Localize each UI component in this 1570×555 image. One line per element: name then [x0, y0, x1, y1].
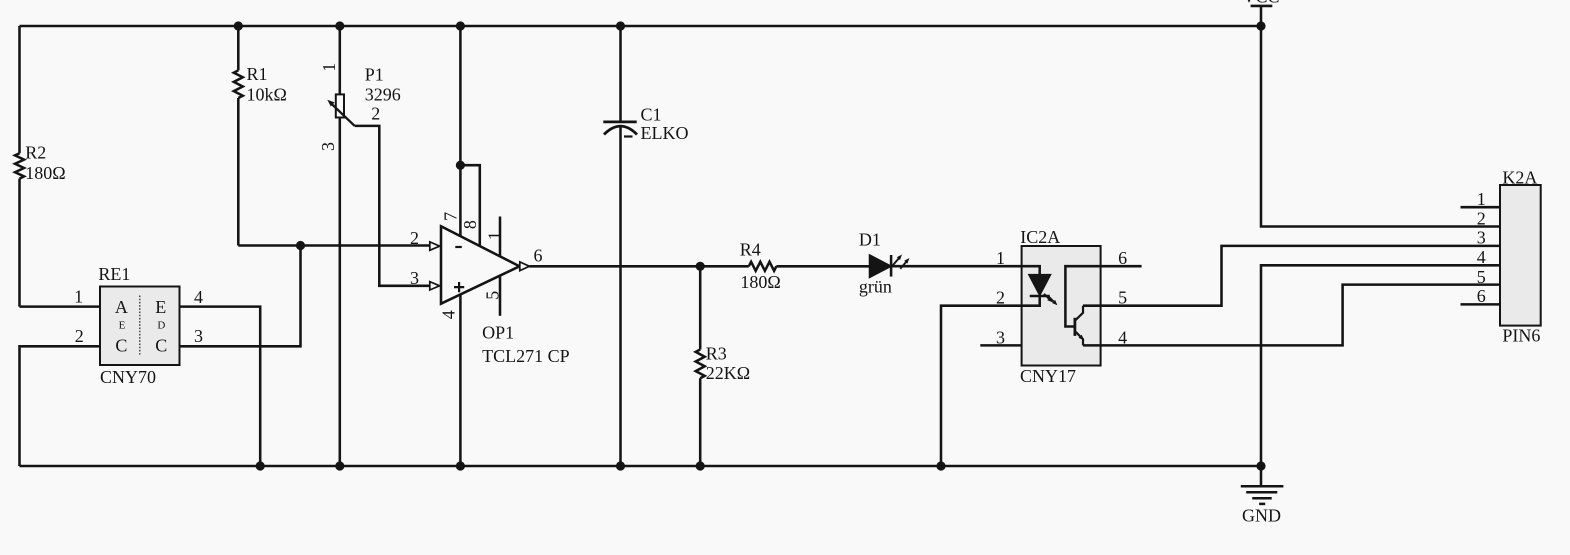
- wire op-amp output to R4: [529, 265, 748, 268]
- svg-text:3: 3: [194, 326, 203, 346]
- wire IC2A pin 5 to K2A pin 3: [1083, 246, 1500, 306]
- OP1 output arrowhead pin 6: [520, 262, 530, 271]
- svg-text:2: 2: [996, 288, 1005, 308]
- svg-text:7: 7: [440, 212, 460, 221]
- OP1 pin 1 stub: [499, 217, 502, 257]
- junction top rail / C1: [616, 21, 625, 30]
- wire RE1 pin 3 riser to inverting node: [180, 246, 301, 347]
- OP1 minus sign: [455, 246, 462, 248]
- svg-text:1: 1: [484, 231, 504, 240]
- svg-text:4: 4: [194, 287, 203, 307]
- wire RE1 pin 2 to bottom rail: [20, 346, 101, 466]
- resistor R4: [740, 240, 870, 293]
- svg-text:2: 2: [371, 104, 380, 124]
- resistor R2: [15, 26, 66, 307]
- svg-text:A: A: [115, 297, 128, 317]
- svg-text:E: E: [119, 320, 126, 332]
- svg-text:R2: R2: [25, 143, 46, 163]
- svg-text:1: 1: [996, 248, 1005, 268]
- wire K2A pin 4 to GND column: [1261, 265, 1500, 466]
- RE1 divider: [139, 296, 141, 355]
- junction top rail / P1: [335, 21, 344, 30]
- wire VCC column to K2A pin 2: [1261, 26, 1500, 227]
- svg-text:1: 1: [74, 286, 83, 306]
- svg-text:grün: grün: [859, 277, 892, 297]
- wire D1 cathode to IC2A pin 1: [891, 265, 1022, 268]
- svg-text:TCL271 CP: TCL271 CP: [482, 346, 570, 366]
- reflex optocoupler RE1: [74, 264, 203, 387]
- svg-text:IC2A: IC2A: [1020, 227, 1060, 247]
- IC2A internal LED: [1030, 275, 1050, 294]
- OP1 triangle: [441, 226, 520, 303]
- OP1 pin 8 wire: [460, 165, 479, 246]
- wire IC2A pin 3 stub: [980, 344, 1021, 347]
- svg-text:R3: R3: [706, 343, 727, 363]
- resistor R1: [234, 26, 287, 246]
- svg-text:C: C: [115, 336, 127, 356]
- resistor R3: [696, 266, 750, 466]
- svg-text:180Ω: 180Ω: [740, 272, 780, 292]
- junction bottom rail / R3: [696, 461, 705, 470]
- svg-text:GND: GND: [1242, 506, 1281, 526]
- svg-text:PIN6: PIN6: [1502, 326, 1540, 346]
- svg-text:C1: C1: [641, 104, 662, 124]
- svg-text:3: 3: [318, 142, 338, 151]
- OP1 pin 5 stub: [499, 276, 502, 316]
- svg-text:3: 3: [996, 328, 1005, 348]
- IC2A internal LED anode path: [1022, 266, 1040, 275]
- OP1 pin 4 wire: [459, 295, 462, 467]
- junction bottom rail / OP1 pin 4: [456, 461, 465, 470]
- junction top rail / OP1 pin 7: [456, 21, 465, 30]
- IC2A light arrows: [1044, 294, 1049, 299]
- potentiometer P1: [318, 26, 401, 466]
- svg-text:ELKO: ELKO: [641, 123, 689, 143]
- OP1 inverting input arrowhead: [430, 242, 440, 250]
- svg-text:4: 4: [1118, 328, 1127, 348]
- wire P1 wiper to op-amp pin 3: [355, 126, 430, 286]
- wire IC2A pin 2 to bottom rail: [941, 296, 1040, 466]
- svg-text:3: 3: [1477, 228, 1486, 248]
- svg-text:P1: P1: [365, 64, 384, 84]
- connector K2A: [1461, 168, 1541, 346]
- svg-text:VCC: VCC: [1242, 0, 1279, 7]
- svg-text:4: 4: [1477, 247, 1486, 267]
- svg-text:CNY17: CNY17: [1020, 366, 1076, 386]
- svg-text:K2A: K2A: [1502, 168, 1537, 188]
- wire top rail: [20, 25, 1262, 28]
- junction top rail / R1: [234, 21, 243, 30]
- svg-text:E: E: [155, 297, 166, 317]
- svg-text:2: 2: [410, 228, 419, 248]
- svg-text:6: 6: [1477, 286, 1486, 306]
- junction OP1 pin 7 / pin 8: [456, 161, 465, 170]
- svg-text:1: 1: [319, 63, 339, 72]
- svg-text:D1: D1: [859, 230, 881, 250]
- svg-text:8: 8: [460, 220, 480, 229]
- ground symbol GND: [1241, 466, 1284, 526]
- svg-text:C: C: [155, 336, 167, 356]
- svg-text:6: 6: [1118, 248, 1127, 268]
- junction bottom rail / GND: [1256, 461, 1265, 470]
- junction bottom rail / C1: [616, 461, 625, 470]
- IC2A labels: [996, 227, 1127, 386]
- op-amp U1 OP1: [410, 26, 570, 466]
- OP1 pin 7 wire: [459, 26, 462, 236]
- svg-text:5: 5: [483, 291, 503, 300]
- svg-text:OP1: OP1: [482, 323, 514, 343]
- wire RE1 pin 4 to bottom rail: [180, 307, 261, 466]
- svg-text:D: D: [157, 320, 165, 332]
- svg-text:5: 5: [1118, 288, 1127, 308]
- junction bottom rail / P1: [335, 461, 344, 470]
- power symbol VCC: [1242, 0, 1279, 26]
- IC2A phototransistor: [1074, 318, 1077, 336]
- svg-text:3296: 3296: [365, 85, 401, 105]
- svg-text:22KΩ: 22KΩ: [706, 363, 750, 383]
- svg-text:R4: R4: [740, 240, 761, 260]
- wire RE1 pin 1: [20, 305, 101, 308]
- OP1 non-inverting input arrowhead: [430, 282, 440, 290]
- junction inverting node: [296, 241, 305, 250]
- svg-text:RE1: RE1: [98, 264, 130, 284]
- svg-text:3: 3: [410, 268, 419, 288]
- svg-text:1: 1: [1477, 189, 1486, 209]
- svg-text:10kΩ: 10kΩ: [247, 85, 287, 105]
- svg-text:4: 4: [438, 310, 458, 319]
- svg-text:6: 6: [534, 245, 543, 265]
- wire IC2A pin 4 to K2A pin 5: [1083, 285, 1500, 346]
- wire R1 bottom to op-amp pin 2: [238, 244, 429, 247]
- C1 minus sign: [624, 135, 633, 137]
- optocoupler IC2A: [1022, 246, 1101, 366]
- svg-text:R1: R1: [247, 64, 268, 84]
- junction top rail / VCC: [1256, 21, 1265, 30]
- junction bottom rail / RE1 pin 4: [256, 461, 265, 470]
- capacitor C1: [603, 26, 688, 466]
- svg-text:5: 5: [1477, 267, 1486, 287]
- svg-text:180Ω: 180Ω: [25, 163, 65, 183]
- wire IC2A pin 6 base: [1065, 266, 1141, 326]
- junction bottom rail / IC2A pin 2: [936, 461, 945, 470]
- svg-text:2: 2: [75, 326, 84, 346]
- wire bottom rail (GND net): [20, 465, 1262, 468]
- K2A pin 1 stub: [1461, 206, 1501, 209]
- svg-text:CNY70: CNY70: [100, 367, 156, 387]
- svg-text:2: 2: [1477, 208, 1486, 228]
- K2A pin 6 stub: [1461, 303, 1501, 306]
- LED D1: [859, 230, 910, 297]
- D1 light arrows: [893, 258, 900, 266]
- junction output / R3: [696, 262, 705, 271]
- P1 wiper arrow: [332, 104, 355, 126]
- OP1 plus sign: [454, 282, 464, 292]
